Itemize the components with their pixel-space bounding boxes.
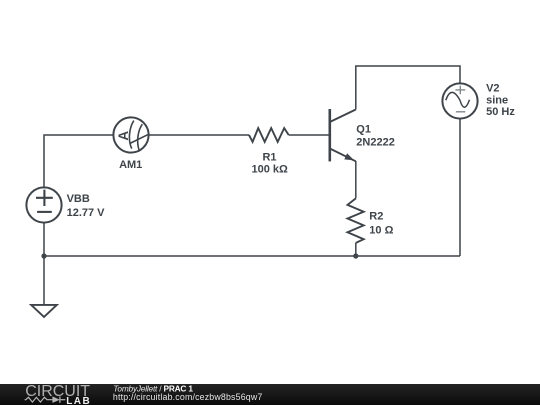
transistor Q1 emitter arrow xyxy=(344,153,354,160)
wire xyxy=(149,134,249,136)
svg-text:sine: sine xyxy=(486,95,508,107)
label Q1 value xyxy=(356,123,395,148)
resistor R2 xyxy=(348,198,364,243)
wire xyxy=(43,256,45,305)
svg-text:10 Ω: 10 Ω xyxy=(369,225,393,237)
footer bar xyxy=(0,384,540,405)
svg-text:A: A xyxy=(116,131,131,141)
wire xyxy=(459,119,461,256)
label R1 value xyxy=(252,152,289,176)
svg-text:100 kΩ: 100 kΩ xyxy=(252,163,289,175)
wire xyxy=(356,66,460,110)
label V2 value xyxy=(486,83,515,119)
CircuitLab logo zigzag and diode xyxy=(25,396,66,403)
svg-text:AM1: AM1 xyxy=(119,159,142,171)
wire xyxy=(355,243,357,256)
svg-text:12.77 V: 12.77 V xyxy=(67,207,106,219)
wire xyxy=(43,223,45,256)
svg-text:VBB: VBB xyxy=(67,193,90,205)
resistor R1 xyxy=(249,128,289,142)
ground xyxy=(31,305,57,317)
CircuitLab logo diode triangle xyxy=(52,396,59,403)
label R2 value xyxy=(369,211,393,237)
svg-text:Q1: Q1 xyxy=(356,123,371,135)
svg-text:LAB: LAB xyxy=(66,396,91,405)
svg-text:R1: R1 xyxy=(262,152,276,164)
junction dot xyxy=(41,253,46,258)
V2 polarity marks xyxy=(455,86,465,112)
wire xyxy=(44,255,460,257)
label VBB value xyxy=(67,193,106,219)
wire xyxy=(355,161,357,198)
wire xyxy=(289,134,329,136)
svg-text:2N2222: 2N2222 xyxy=(356,137,395,149)
svg-text:50 Hz: 50 Hz xyxy=(486,106,515,118)
svg-text:http://circuitlab.com/cezbw8bs: http://circuitlab.com/cezbw8bs56qw7 xyxy=(113,392,263,402)
voltage source V2 xyxy=(442,83,477,118)
voltage source VBB xyxy=(26,187,61,222)
wire xyxy=(44,135,113,188)
svg-text:V2: V2 xyxy=(486,83,499,95)
transistor Q1 xyxy=(330,109,356,161)
svg-text:R2: R2 xyxy=(369,211,383,223)
junction dot xyxy=(353,253,358,258)
ammeter AM1 xyxy=(113,117,148,152)
